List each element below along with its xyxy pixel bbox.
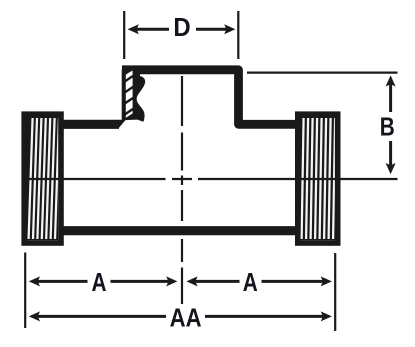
svg-text:A: A	[91, 268, 106, 297]
svg-text:D: D	[173, 13, 190, 42]
svg-text:B: B	[380, 113, 395, 142]
svg-text:AA: AA	[170, 304, 202, 333]
svg-text:A: A	[243, 268, 258, 297]
